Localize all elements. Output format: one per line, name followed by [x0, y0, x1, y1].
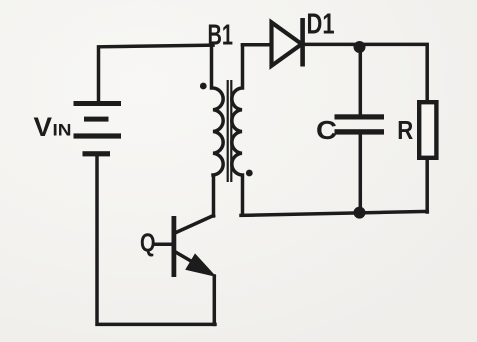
wire diode cathode to top-right corner and R top lead	[303, 44, 427, 101]
transistor Q base lead	[155, 243, 173, 247]
diode D1	[272, 18, 303, 67]
resistor R box	[419, 102, 436, 158]
wire C top lead	[359, 47, 363, 115]
wire R bottom lead	[425, 160, 429, 212]
transformer core	[228, 80, 232, 182]
wire bottom right rail	[241, 211, 427, 215]
transistor Q collector diagonal	[175, 216, 214, 234]
svg-text:IN: IN	[53, 120, 72, 139]
svg-text:Q: Q	[140, 228, 156, 258]
transformer B1 primary winding	[212, 45, 224, 216]
svg-text:R: R	[397, 117, 413, 145]
node dot top	[354, 41, 366, 53]
svg-text:D1: D1	[307, 9, 335, 41]
svg-text:B1: B1	[208, 20, 234, 52]
transistor Q base bar	[171, 216, 176, 277]
secondary phase dot	[246, 170, 253, 177]
wire secondary top to diode anode	[243, 43, 271, 47]
svg-text:V: V	[34, 112, 53, 142]
wire battery bottom loop to emitter	[97, 156, 215, 324]
battery VIN plates	[74, 101, 122, 156]
transformer B1 secondary winding	[232, 45, 243, 214]
wire C bottom lead	[359, 134, 363, 213]
wire battery top to primary top	[99, 45, 214, 103]
svg-text:C: C	[316, 117, 337, 145]
capacitor C plates	[335, 114, 385, 134]
node dot bottom	[354, 207, 366, 219]
transistor Q emitter with arrow	[176, 252, 197, 264]
primary phase dot	[200, 83, 207, 90]
transistor Q emitter vertical	[213, 276, 217, 324]
